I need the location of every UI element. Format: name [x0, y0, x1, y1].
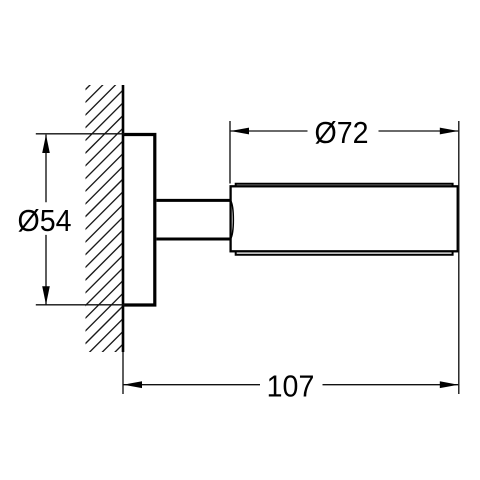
- holder cylinder body: [231, 186, 458, 251]
- dimension Ø72 extension line right: [458, 121, 460, 394]
- dimension Ø54 arrow down: [42, 286, 50, 304]
- dimension Ø72 arrow right: [440, 128, 459, 135]
- rosette plate: [123, 135, 155, 306]
- dimension 107 arrow left: [124, 381, 143, 388]
- dimension Ø54 line: [45, 135, 47, 305]
- post-to-holder fillet: [231, 200, 234, 239]
- wall face line: [122, 85, 125, 352]
- dimension 107 extension line left: [122, 352, 124, 394]
- dimension Ø54 extension line bottom: [36, 304, 125, 306]
- svg-text:107: 107: [267, 370, 315, 404]
- svg-text:Ø54: Ø54: [17, 204, 71, 238]
- dimension Ø72 arrow left: [231, 128, 250, 135]
- dimension Ø54 extension line top: [36, 133, 125, 135]
- mounting post: [157, 200, 231, 239]
- holder rim bottom: [236, 251, 453, 255]
- dimension Ø72 extension line left: [229, 121, 231, 184]
- dimension Ø54 arrow up: [42, 135, 50, 153]
- svg-text:Ø72: Ø72: [314, 116, 368, 150]
- dimension 107 line: [124, 384, 459, 386]
- dimension Ø72 line: [231, 130, 459, 132]
- wall hatching: [70, 35, 140, 423]
- dimension 107 arrow right: [440, 381, 459, 388]
- holder rim top: [236, 184, 453, 187]
